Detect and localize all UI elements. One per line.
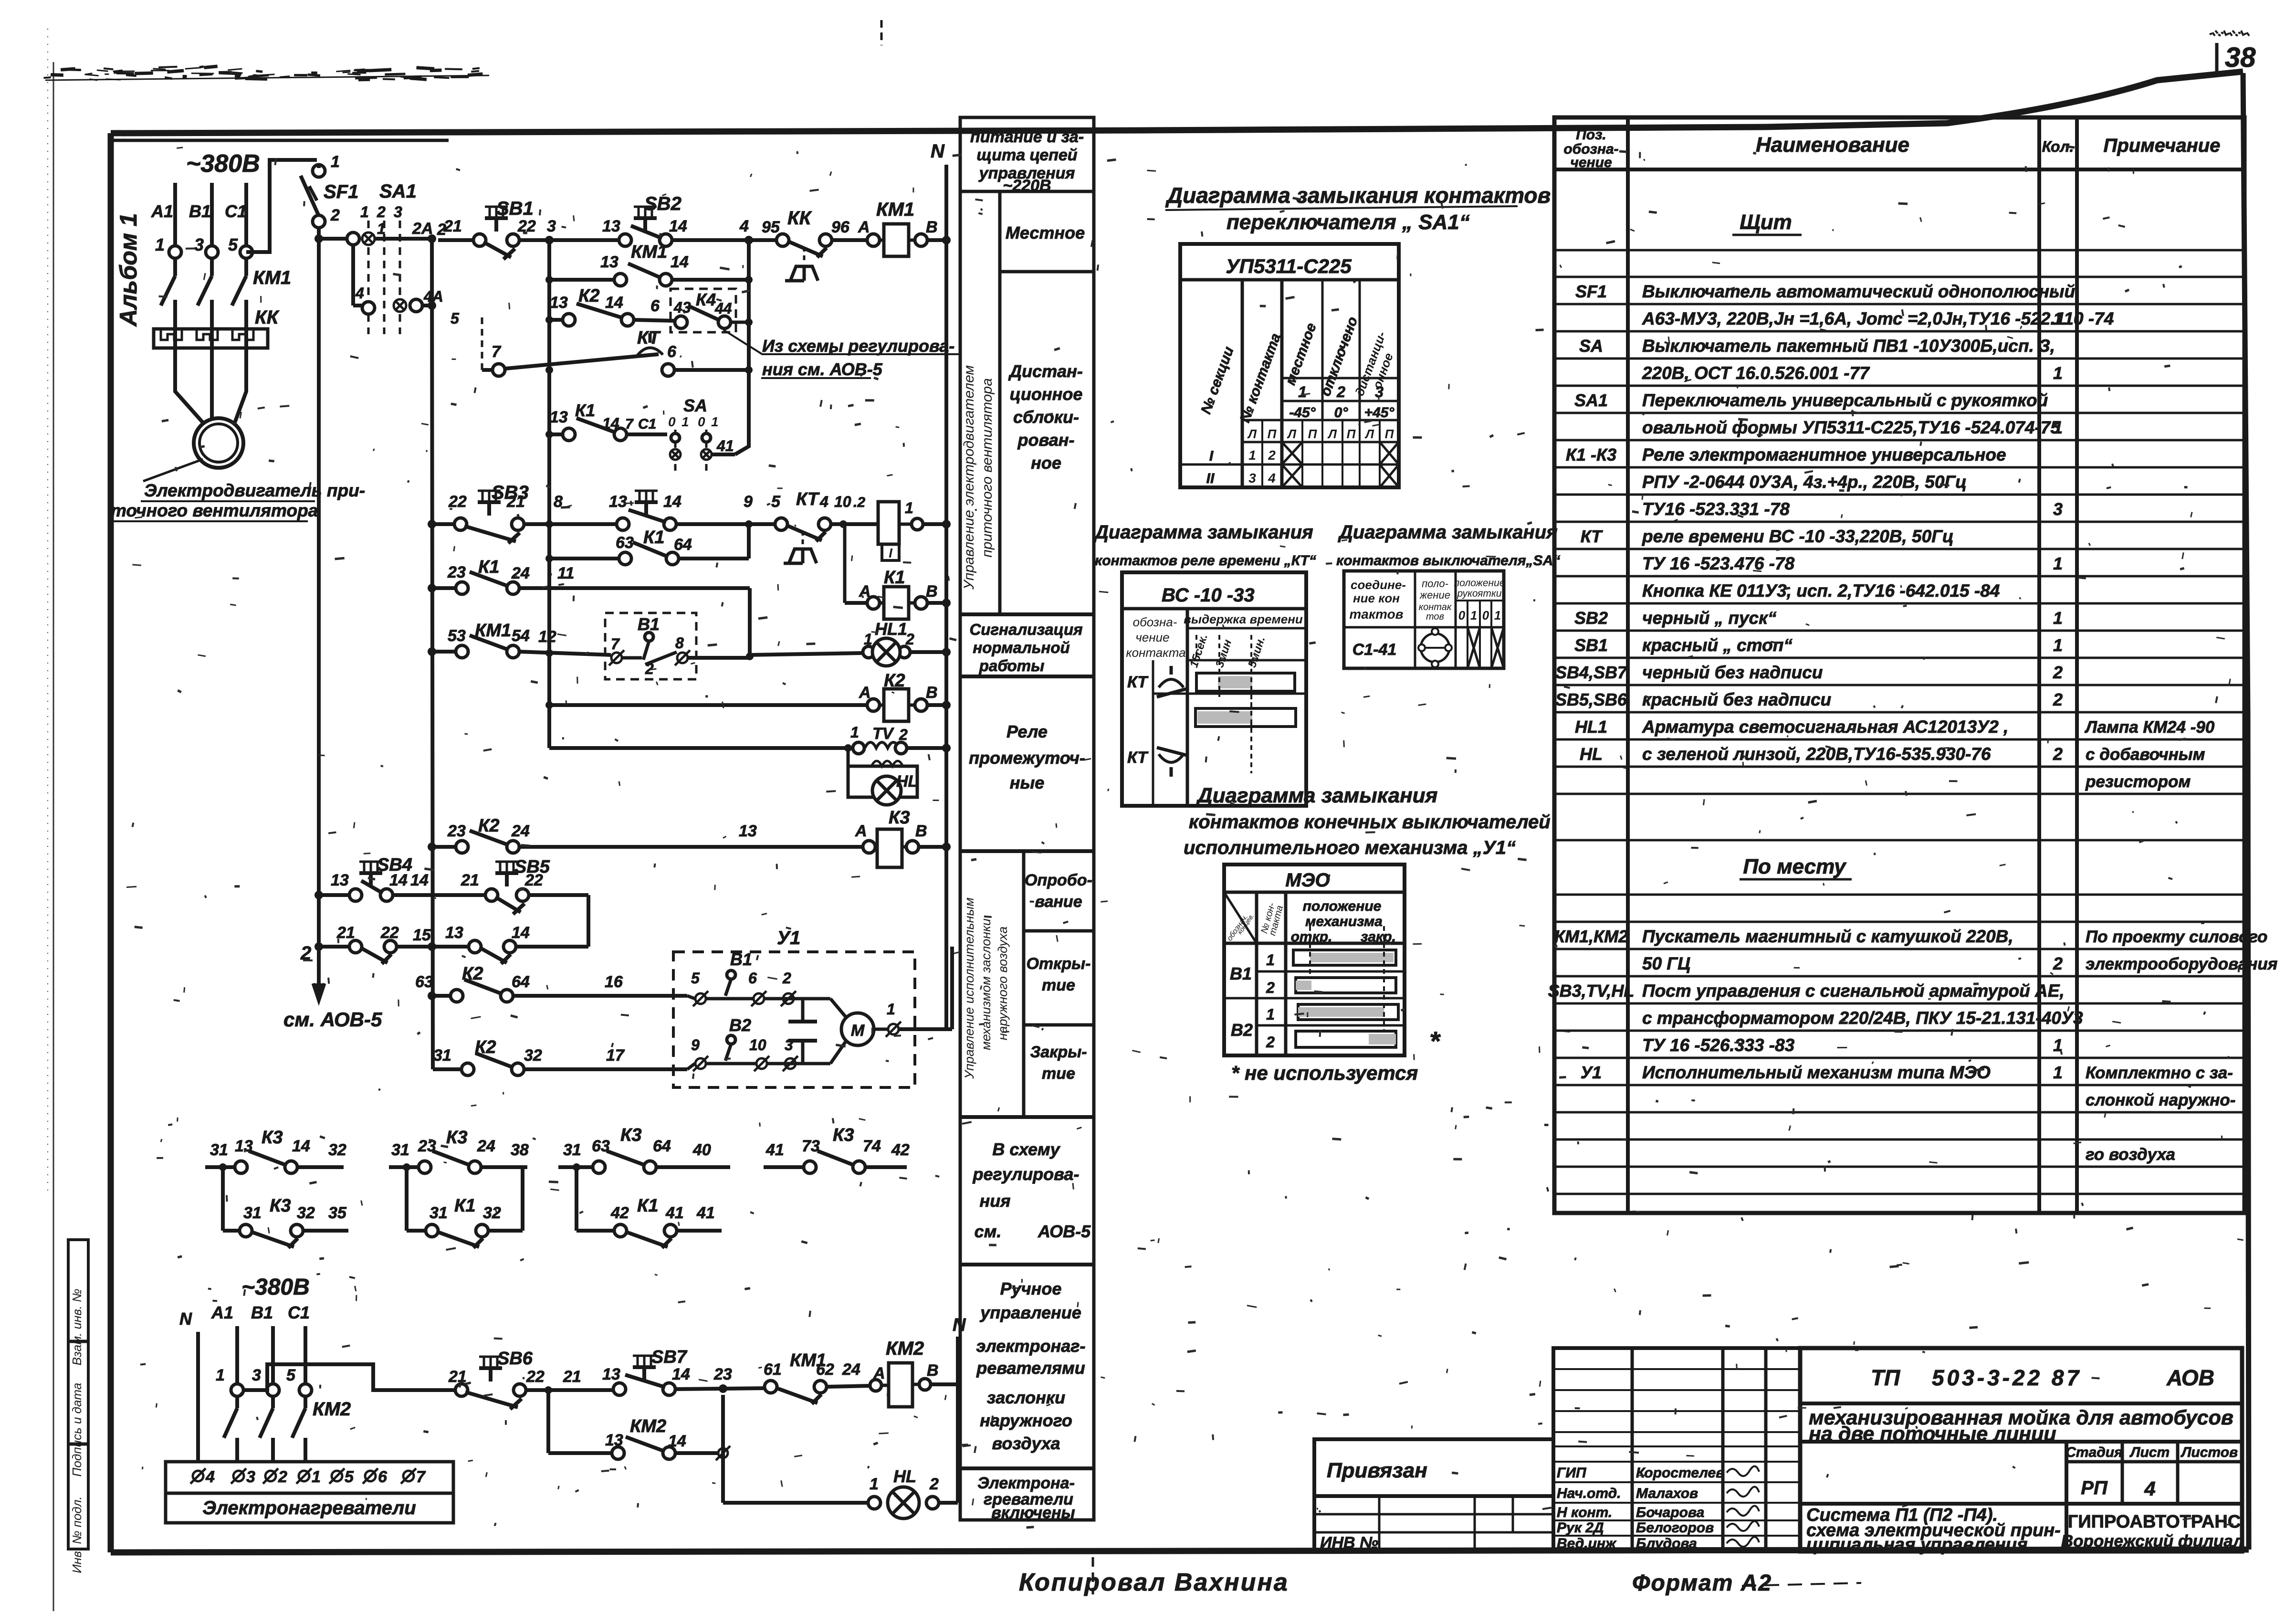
svg-text:4: 4 [205, 1468, 215, 1486]
system name cell [1800, 1502, 2242, 1506]
svg-text:А63-МУ3, 220В,Jн =1,6А, Jотс =: А63-МУ3, 220В,Jн =1,6А, Jотс =2,0Jн,ТУ16… [1642, 309, 2114, 328]
svg-text:8: 8 [675, 634, 684, 652]
table SA switch [1344, 571, 1504, 668]
svg-text:тие: тие [1042, 976, 1075, 994]
svg-text:заслонки: заслонки [987, 1388, 1065, 1407]
svg-text:на две поточные линии: на две поточные линии [1809, 1423, 2056, 1445]
svg-text:SB7: SB7 [651, 1347, 688, 1367]
svg-text:Реле электромагнитное универс: Реле электромагнитное универсальное [1642, 445, 2006, 464]
svg-text:КМ1: КМ1 [876, 199, 914, 220]
svg-text:1: 1 [864, 631, 872, 648]
svg-text:6: 6 [378, 1468, 388, 1486]
svg-text:SA1: SA1 [1574, 390, 1608, 410]
svg-text:50 ГЦ: 50 ГЦ [1642, 954, 1690, 973]
svg-text:Белогоров: Белогоров [1636, 1520, 1714, 1536]
svg-text:Дистан-: Дистан- [1008, 361, 1083, 381]
K3 group3 contact 31 63-64 40 [558, 1165, 593, 1169]
row3: K2 contact 13-14 and K4 dashed box [549, 318, 563, 322]
svg-text:63: 63 [592, 1137, 610, 1155]
svg-text:16: 16 [605, 973, 623, 991]
svg-text:1: 1 [2053, 608, 2063, 628]
svg-text:40: 40 [692, 1141, 711, 1159]
relay coil K1 row [843, 524, 847, 603]
svg-text:23: 23 [447, 563, 466, 581]
svg-text:6: 6 [650, 297, 660, 315]
svg-text:КМ1: КМ1 [475, 621, 511, 641]
row17: K2 contact 31-32 wire 17 [433, 1067, 462, 1071]
svg-text:13: 13 [331, 871, 349, 889]
svg-text:2: 2 [899, 726, 908, 743]
svg-text:Подпись и дата: Подпись и дата [70, 1383, 84, 1477]
svg-text:КМ1,КМ2: КМ1,КМ2 [1554, 927, 1628, 946]
lamp HL bottom row [721, 1497, 725, 1503]
heater terminal box [166, 1462, 453, 1523]
svg-text:В1: В1 [251, 1303, 273, 1322]
svg-text:4: 4 [355, 285, 364, 302]
svg-text:2: 2 [1336, 383, 1345, 401]
svg-text:1: 1 [1298, 383, 1307, 401]
svg-text:соедине-: соедине- [1351, 578, 1406, 592]
svg-text:выдержка времени: выдержка времени [1184, 612, 1303, 626]
svg-text:КТ: КТ [1581, 527, 1604, 546]
svg-text:SB2: SB2 [1574, 608, 1608, 628]
box Местное [1000, 270, 1094, 274]
svg-text:41: 41 [665, 1204, 684, 1222]
svg-text:Откры-: Откры- [1026, 955, 1090, 973]
svg-text:31: 31 [563, 1141, 581, 1159]
svg-text:с трансформатором 220/24В, ПКУ: с трансформатором 220/24В, ПКУ 15-21.131… [1642, 1008, 2083, 1028]
svg-text:31: 31 [243, 1204, 262, 1222]
box Реле промежуточные [960, 849, 1094, 853]
svg-text:23: 23 [447, 822, 466, 840]
svg-text:2: 2 [782, 970, 791, 987]
svg-text:31: 31 [391, 1141, 409, 1159]
svg-text:Диаграмма замыкания: Диаграмма замыкания [1093, 522, 1313, 543]
svg-text:13: 13 [605, 1431, 623, 1449]
svg-text:3: 3 [246, 1468, 255, 1486]
svg-text:35: 35 [328, 1204, 347, 1222]
svg-text:Формат А2: Формат А2 [1632, 1571, 1772, 1596]
parts table header [1554, 168, 2244, 171]
svg-text:Закры-: Закры- [1030, 1043, 1087, 1061]
svg-text:N: N [953, 1315, 966, 1335]
phase feeder lines A1 B1 C1 [173, 183, 177, 276]
divider rotated label col (lower) [1022, 851, 1026, 1117]
svg-text:КМ2: КМ2 [313, 1399, 351, 1420]
svg-text:N: N [179, 1309, 192, 1329]
svg-text:2: 2 [1266, 979, 1275, 996]
svg-text:6: 6 [748, 970, 757, 987]
svg-text:1: 1 [2053, 418, 2063, 437]
contactor coil KM2 bottom [870, 1380, 881, 1391]
svg-text:К1 -К3: К1 -К3 [1566, 445, 1616, 464]
svg-text:SF1: SF1 [1575, 282, 1607, 301]
node wire 2 junction under SF1 [315, 234, 323, 243]
svg-text:Копировал Вахнина: Копировал Вахнина [1019, 1569, 1289, 1596]
KT delayed contact in row6 [775, 518, 787, 530]
svg-text:К3: К3 [262, 1128, 283, 1148]
wire 4A down to rail B [422, 304, 432, 307]
svg-text:I: I [1209, 448, 1214, 464]
KT bar row1 [1196, 673, 1295, 691]
svg-text:13: 13 [609, 493, 627, 511]
svg-text:-45°: -45° [1289, 405, 1316, 421]
svg-text:SB5,SB6: SB5,SB6 [1555, 690, 1627, 709]
svg-text:12: 12 [538, 628, 556, 646]
svg-text:контактов реле времени „КТ“: контактов реле времени „КТ“ [1095, 553, 1316, 569]
svg-text:24: 24 [511, 564, 530, 582]
svg-text:5: 5 [451, 310, 460, 327]
svg-text:3: 3 [2053, 499, 2063, 519]
svg-text:промежуточ-: промежуточ- [969, 748, 1085, 768]
svg-text:К3: К3 [446, 1128, 468, 1148]
svg-text:резистором: резистором [2085, 772, 2191, 791]
svg-text:КК: КК [787, 208, 812, 229]
svg-text:*: * [1429, 1026, 1441, 1056]
svg-text:НL: НL [893, 1466, 916, 1486]
UP 1 2 3 row [1282, 377, 1399, 380]
svg-text:А1: А1 [151, 201, 173, 221]
svg-text:Л: Л [1364, 427, 1374, 441]
svg-text:23: 23 [713, 1365, 732, 1383]
svg-text:0: 0 [1458, 608, 1466, 622]
row17 wire into Y1 box [687, 1064, 695, 1069]
svg-text:1: 1 [1248, 448, 1256, 463]
svg-text:SF1: SF1 [324, 181, 358, 202]
svg-text:43: 43 [673, 299, 691, 316]
row13: K2 contact feeding K3 coil [428, 843, 436, 851]
svg-text:3: 3 [194, 235, 204, 254]
divider rotated label col (upper) [998, 191, 1002, 614]
svg-text:5: 5 [771, 493, 781, 511]
svg-text:рукоятки: рукоятки [1457, 588, 1502, 599]
row4: KT time contact 7-6 [481, 317, 483, 370]
KT bar row2 [1195, 708, 1296, 727]
svg-text:.2: .2 [853, 495, 865, 510]
svg-text:Диаграмма замыкания: Диаграмма замыкания [1338, 522, 1558, 543]
svg-text:38: 38 [511, 1141, 529, 1159]
svg-text:95: 95 [762, 218, 780, 236]
svg-text:1: 1 [711, 414, 719, 429]
svg-text:Переключатель универсальный с: Переключатель универсальный с рукояткой [1642, 390, 2048, 410]
svg-text:Лампа КМ24 -90: Лампа КМ24 -90 [2084, 718, 2215, 737]
svg-text:ИНВ №: ИНВ № [1320, 1534, 1378, 1552]
left bus wire vertical [317, 239, 321, 983]
page number 38 top right [2215, 43, 2219, 72]
svg-text:+45°: +45° [1364, 405, 1395, 421]
box Ручное управление электронагревателями [960, 1466, 1094, 1470]
svg-text:15: 15 [413, 926, 431, 944]
svg-text:HL: HL [1580, 744, 1603, 764]
svg-text:В2: В2 [729, 1015, 751, 1035]
svg-text:13: 13 [550, 408, 568, 426]
svg-text:Местное: Местное [1006, 223, 1085, 243]
svg-text:чение: чение [1570, 155, 1612, 170]
svg-text:АОВ: АОВ [2166, 1365, 2214, 1390]
svg-text:С1: С1 [638, 416, 656, 432]
K3 group1 lower contact 31 K3 32 35 [221, 1167, 225, 1231]
parts table outer [1554, 117, 2244, 1213]
svg-text:овальной формы УП5311-С225,ТУ1: овальной формы УП5311-С225,ТУ16 -524.074… [1642, 418, 2061, 437]
svg-text:SB2: SB2 [644, 193, 681, 214]
svg-text:ния см. АОВ-5: ния см. АОВ-5 [762, 359, 883, 379]
svg-text:42: 42 [891, 1141, 910, 1159]
left stamp column boxes [68, 1240, 88, 1549]
svg-text:ные: ные [1010, 773, 1045, 792]
row16: K2 contact 63-64 wire 16 [428, 991, 436, 1000]
svg-text:ТУ 16 -523.476 -78: ТУ 16 -523.476 -78 [1642, 554, 1795, 573]
rail B vertical [432, 239, 433, 1069]
table UP5311-C225 [1180, 244, 1399, 487]
svg-text:24: 24 [477, 1137, 495, 1155]
svg-text:В1: В1 [189, 201, 211, 221]
svg-text:10: 10 [749, 1036, 766, 1054]
svg-text:регулирова-: регулирова- [973, 1164, 1080, 1184]
svg-text:22: 22 [526, 1368, 545, 1386]
svg-text:Нач.отд.: Нач.отд. [1557, 1486, 1621, 1501]
svg-text:тие: тие [1042, 1065, 1075, 1083]
svg-text:НL1: НL1 [875, 619, 907, 639]
svg-text:14: 14 [672, 1365, 690, 1383]
svg-text:Наименование: Наименование [1756, 133, 1909, 157]
svg-text:В1: В1 [730, 949, 752, 969]
svg-text:П: П [1385, 427, 1394, 441]
svg-text:В: В [926, 582, 938, 601]
svg-text:контактов конечных выключателе: контактов конечных выключателей [1189, 812, 1551, 833]
svg-text:Электронагреватели: Электронагреватели [202, 1497, 416, 1519]
contactor KM2 main contacts [235, 1396, 239, 1408]
svg-text:61: 61 [764, 1360, 782, 1379]
svg-text:14: 14 [669, 217, 687, 235]
svg-text:контактов выключателя„SА“: контактов выключателя„SА“ [1336, 553, 1560, 569]
svg-text:красный „ стоп“: красный „ стоп“ [1642, 635, 1793, 655]
svg-text:73: 73 [802, 1137, 820, 1155]
svg-text:21: 21 [443, 217, 462, 235]
svg-text:14: 14 [410, 871, 429, 889]
relay coil KT two-section [878, 502, 899, 544]
svg-text:SB3,ТV,НL: SB3,ТV,НL [1548, 981, 1635, 1001]
svg-text:41: 41 [696, 1204, 715, 1222]
svg-text:2: 2 [2053, 663, 2063, 682]
svg-text:НL1: НL1 [1575, 717, 1607, 737]
svg-text:1: 1 [870, 1475, 879, 1493]
actuator Y1 dashed box [673, 952, 915, 1087]
svg-text:А1: А1 [211, 1303, 233, 1322]
svg-text:К3: К3 [889, 808, 910, 828]
svg-text:N: N [931, 141, 945, 162]
row14: SB4 SB5 buttons [315, 891, 323, 899]
svg-text:32: 32 [328, 1141, 346, 1159]
svg-text:Электродвигатель при-: Электродвигатель при- [144, 481, 365, 500]
svg-text:ТП: ТП [1871, 1365, 1900, 1390]
box Закрытие [960, 1115, 1094, 1119]
svg-text:К2: К2 [578, 286, 600, 306]
svg-text:У1: У1 [1581, 1063, 1602, 1082]
svg-text:SB4,SB7: SB4,SB7 [1555, 663, 1628, 682]
svg-text:SA: SA [1579, 336, 1603, 356]
wire 2A to rail B [375, 237, 432, 241]
svg-text:64: 64 [512, 973, 530, 991]
svg-text:Ручное: Ручное [1000, 1279, 1062, 1298]
svg-text:2: 2 [2053, 954, 2063, 973]
svg-text:Пост управления с сигнальной а: Пост управления с сигнальной арматурой А… [1642, 981, 2065, 1001]
svg-text:Диаграмма замыкания контактов: Диаграмма замыкания контактов [1165, 183, 1551, 208]
row1: KK thermal contact [776, 234, 789, 246]
svg-text:1: 1 [155, 235, 165, 254]
svg-text:7: 7 [625, 416, 634, 432]
svg-text:щита цепей: щита цепей [976, 146, 1077, 164]
svg-text:7: 7 [611, 635, 620, 653]
row9: KM1 contact 53-54 Y1 B1 limit switch lamp HL1 [428, 647, 436, 656]
svg-text:УП5311-С225: УП5311-С225 [1226, 255, 1352, 277]
svg-text:см.: см. [975, 1222, 1002, 1241]
svg-text:1: 1 [377, 220, 386, 237]
top-left smudge strip [185, 68, 201, 69]
svg-text:Взам. инв. №: Взам. инв. № [70, 1289, 84, 1366]
svg-text:Примечание: Примечание [2104, 135, 2221, 156]
svg-text:Стадия: Стадия [2065, 1445, 2123, 1460]
box В схему регулирования см АОВ-5 [960, 1263, 1094, 1266]
box Сигнализация нормальной работы [960, 612, 1094, 616]
UP L P row [1242, 419, 1399, 422]
svg-text:21: 21 [563, 1368, 581, 1386]
title block main [1800, 1348, 2242, 1551]
svg-text:положение: положение [1303, 898, 1382, 914]
svg-text:Опробо-: Опробо- [1025, 871, 1092, 889]
svg-text:Малахов: Малахов [1636, 1486, 1698, 1501]
svg-text:21: 21 [448, 1368, 467, 1386]
svg-text:1: 1 [887, 1001, 895, 1018]
svg-text:электрооборудования: электрооборудования [2086, 955, 2277, 973]
svg-text:В: В [926, 684, 938, 702]
svg-text:Рук 2Д: Рук 2Д [1557, 1520, 1604, 1536]
svg-text:К3: К3 [620, 1125, 642, 1145]
K3 group1 contact 31 13-14 32 [205, 1165, 235, 1169]
svg-text:4: 4 [1268, 471, 1276, 485]
svg-text:ГИПРОАВТОТРАНС: ГИПРОАВТОТРАНС [2068, 1512, 2241, 1532]
svg-text:ционное: ционное [1010, 384, 1083, 404]
K3 group3 lower contact 42 K1 41 41 [575, 1167, 578, 1231]
svg-text:42: 42 [610, 1204, 629, 1222]
svg-text:К3: К3 [833, 1125, 854, 1145]
SA X cells [1468, 627, 1480, 668]
svg-text:14: 14 [671, 253, 689, 271]
leader из схемы регулирования [723, 330, 959, 354]
svg-text:КТ: КТ [1127, 673, 1149, 691]
svg-text:9: 9 [691, 1036, 700, 1054]
svg-text:Реле: Реле [1006, 722, 1048, 741]
drawing frame [111, 72, 2243, 133]
svg-text:ревателями: ревателями [976, 1358, 1085, 1378]
fold mark bottom [1092, 1557, 1094, 1594]
svg-text:24: 24 [842, 1360, 860, 1379]
rail 4-node vertical upper [747, 240, 751, 434]
svg-text:53: 53 [448, 627, 466, 645]
svg-text:1: 1 [1266, 951, 1275, 969]
svg-text:Выключатель автоматический одн: Выключатель автоматический однополюсный [1642, 282, 2075, 301]
svg-text:П: П [1347, 427, 1356, 441]
svg-text:220В, ОСТ 16.0.526.001 -77: 220В, ОСТ 16.0.526.001 -77 [1642, 363, 1870, 383]
svg-text:Блудова: Блудова [1636, 1536, 1697, 1551]
svg-text:14: 14 [602, 415, 619, 432]
svg-text:1: 1 [2053, 1063, 2063, 1082]
svg-text:0: 0 [1482, 608, 1489, 622]
lamp HL1 [863, 646, 874, 658]
svg-text:~380В: ~380В [241, 1275, 310, 1300]
svg-text:6: 6 [667, 343, 677, 361]
svg-text:22: 22 [524, 871, 543, 889]
stage list columns [2065, 1442, 2068, 1551]
svg-text:механизма: механизма [1305, 914, 1383, 929]
svg-text:13: 13 [550, 294, 568, 312]
UP angle row [1282, 400, 1399, 402]
svg-text:В1: В1 [1230, 964, 1252, 983]
svg-text:сблоки-: сблоки- [1013, 407, 1079, 427]
box Открытие [1024, 1023, 1094, 1027]
svg-text:с зеленой линзой, 220В,ТУ16-53: с зеленой линзой, 220В,ТУ16-535.930-76 [1642, 744, 1991, 764]
svg-text:9: 9 [744, 493, 753, 511]
svg-text:5: 5 [691, 970, 700, 987]
svg-text:контакта: контакта [1126, 645, 1185, 660]
svg-text:2: 2 [377, 203, 386, 221]
MEO bars [1293, 950, 1396, 965]
function column outer box [960, 117, 1094, 1520]
button SB6 [455, 1384, 468, 1396]
motor M in Y1 [830, 999, 846, 1017]
svg-text:SB1: SB1 [496, 198, 534, 219]
KM2 selfhold contact [546, 1390, 550, 1453]
svg-text:4: 4 [2144, 1477, 2155, 1500]
svg-text:У1: У1 [777, 928, 800, 949]
svg-text:7: 7 [492, 343, 502, 361]
row5: K1 contact and SA selector [549, 432, 563, 436]
svg-text:13: 13 [602, 1365, 620, 1383]
svg-text:КМ2: КМ2 [886, 1338, 924, 1359]
svg-text:поло-: поло- [1422, 578, 1448, 590]
svg-text:Привязан: Привязан [1327, 1459, 1427, 1482]
svg-text:Арматура светосигнальная АС120: Арматура светосигнальная АС12013У2 , [1642, 717, 2008, 737]
svg-text:В: В [927, 1361, 939, 1380]
svg-text:Сигнализация: Сигнализация [969, 621, 1082, 638]
svg-text:41: 41 [765, 1141, 784, 1159]
svg-text:22: 22 [380, 924, 399, 942]
svg-text:23: 23 [418, 1137, 436, 1155]
svg-text:НL: НL [896, 772, 918, 791]
svg-text:К1: К1 [643, 527, 665, 548]
svg-text:С1: С1 [225, 201, 247, 221]
box: питание и защита цепей управления 220В [960, 190, 1094, 193]
svg-text:11: 11 [557, 564, 574, 582]
svg-text:Исполнительный механизм типа М: Исполнительный механизм типа МЭО [1642, 1063, 1991, 1082]
privyazan grid [1314, 1496, 1553, 1551]
svg-text:Поз.: Поз. [1576, 127, 1606, 143]
svg-text:контак: контак [1419, 602, 1452, 612]
row1 wire to KK [672, 238, 777, 242]
svg-text:Листов: Листов [2181, 1445, 2238, 1460]
row12: HL lamp box [847, 748, 850, 766]
svg-text:1: 1 [216, 1366, 225, 1384]
svg-text:1: 1 [1266, 1006, 1275, 1023]
svg-text:нормальной: нормальной [973, 639, 1069, 656]
svg-text:13: 13 [739, 822, 757, 840]
svg-text:наружного: наружного [980, 1411, 1072, 1430]
svg-text:ТУ16 -523.331 -78: ТУ16 -523.331 -78 [1642, 499, 1790, 519]
svg-text:В: В [915, 822, 927, 840]
svg-text:64: 64 [653, 1137, 671, 1155]
svg-text:74: 74 [863, 1137, 881, 1155]
svg-text:ное: ное [1031, 453, 1061, 473]
svg-text:1: 1 [331, 153, 340, 171]
